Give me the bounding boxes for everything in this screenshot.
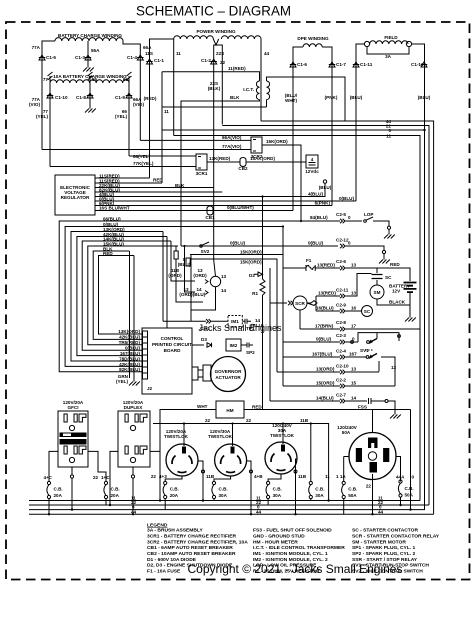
svg-text:C2-11: C2-11	[336, 288, 349, 293]
svg-text:SCR: SCR	[295, 301, 305, 306]
svg-text:CB1 - 6AMP AUTO RESET BREAKE: CB1 - 6AMP AUTO RESET BREAKER	[147, 545, 233, 551]
svg-text:CB1: CB1	[205, 215, 215, 220]
svg-text:11B: 11B	[206, 474, 215, 479]
svg-text:3CR1: 3CR1	[196, 171, 208, 176]
svg-text:SV1 - START-RUN-STOP SWITCH: SV1 - START-RUN-STOP SWITCH	[352, 563, 429, 569]
svg-text:C2-2: C2-2	[336, 378, 346, 383]
svg-text:4+C: 4+C	[43, 475, 52, 480]
svg-text:50A: 50A	[405, 493, 414, 498]
svg-text:55: 55	[92, 77, 98, 82]
svg-text:C1-9: C1-9	[115, 95, 125, 100]
svg-text:44: 44	[378, 509, 384, 514]
svg-text:0: 0	[388, 128, 391, 133]
svg-text:22: 22	[220, 60, 226, 65]
svg-text:0(BLU): 0(BLU)	[316, 337, 332, 342]
svg-text:0: 0	[348, 215, 351, 220]
svg-text:C2-7: C2-7	[336, 393, 346, 398]
svg-text:SP2 - SPARK PLUG, CYL. 2: SP2 - SPARK PLUG, CYL. 2	[352, 551, 416, 557]
svg-text:(BLU): (BLU)	[319, 185, 332, 190]
svg-text:66: 66	[123, 77, 129, 82]
svg-text:0(BLU): 0(BLU)	[339, 196, 355, 201]
svg-text:(YEL): (YEL)	[36, 114, 48, 119]
svg-text:DUPLEX: DUPLEX	[124, 405, 144, 410]
svg-text:(VIO): (VIO)	[29, 102, 40, 107]
svg-text:HM: HM	[226, 408, 233, 413]
svg-text:C2-10: C2-10	[336, 364, 349, 369]
svg-text:RED: RED	[390, 262, 400, 267]
svg-text:4+3: 4+3	[159, 474, 167, 479]
svg-text:0(BLU/WHT): 0(BLU/WHT)	[227, 205, 254, 210]
svg-text:SP2: SP2	[246, 350, 255, 355]
svg-text:BLK: BLK	[175, 183, 185, 188]
svg-text:CB2 - 10AMP AUTO RESET BREAK: CB2 - 10AMP AUTO RESET BREAKER	[147, 551, 236, 557]
svg-text:LEGEND: LEGEND	[147, 523, 168, 529]
svg-text:BOARD: BOARD	[164, 348, 182, 353]
svg-text:16S BLU/WHT: 16S BLU/WHT	[99, 206, 130, 211]
svg-text:CB2: CB2	[238, 166, 248, 171]
svg-text:11: 11	[386, 134, 391, 139]
svg-text:17: 17	[351, 324, 357, 329]
svg-text:DPE WINDING: DPE WINDING	[297, 36, 329, 41]
svg-text:167(BLU): 167(BLU)	[120, 351, 141, 356]
svg-text:C.B.: C.B.	[405, 486, 414, 491]
svg-text:C1-3: C1-3	[75, 55, 85, 60]
svg-text:66(YEL): 66(YEL)	[133, 154, 151, 159]
svg-text:C.B.: C.B.	[111, 487, 120, 492]
svg-text:66A: 66A	[143, 45, 152, 50]
svg-text:PRINTED CIRCUIT: PRINTED CIRCUIT	[152, 342, 192, 347]
svg-text:(BLU): (BLU)	[350, 95, 363, 100]
svg-text:SC: SC	[364, 309, 371, 314]
svg-text:(YEL): (YEL)	[115, 114, 127, 119]
svg-text:66(BLU): 66(BLU)	[103, 217, 121, 222]
svg-text:11B: 11B	[298, 474, 307, 479]
svg-text:LOP - LOW OIL PRESSURE: LOP - LOW OIL PRESSURE	[253, 563, 317, 569]
svg-text:IM1 - IGNITION MODULE, CYL.: IM1 - IGNITION MODULE, CYL. 1	[253, 551, 328, 557]
svg-text:RED: RED	[252, 405, 262, 410]
svg-text:C1-2: C1-2	[201, 58, 211, 63]
svg-text:C.B.: C.B.	[273, 487, 282, 492]
svg-text:84(BLU): 84(BLU)	[310, 215, 328, 220]
svg-text:REGULATOR: REGULATOR	[61, 195, 90, 200]
svg-text:D3: D3	[201, 337, 207, 342]
svg-text:SCR - STARTER CONTACTOR RELA: SCR - STARTER CONTACTOR RELAY	[352, 534, 440, 540]
svg-text:R1: R1	[252, 291, 258, 296]
svg-text:C2-3: C2-3	[336, 333, 346, 338]
svg-text:4(BLU): 4(BLU)	[308, 192, 324, 197]
svg-text:I.C.T.: I.C.T.	[243, 87, 254, 92]
svg-text:22S: 22S	[216, 51, 224, 56]
svg-text:F1 - 10A FUSE: F1 - 10A FUSE	[147, 569, 181, 575]
svg-text:1 1A: 1 1A	[336, 474, 346, 479]
svg-text:15K(ORD): 15K(ORD)	[266, 139, 288, 144]
svg-text:12Vdc: 12Vdc	[305, 169, 319, 174]
svg-text:SSR - START / STOP RELAY: SSR - START / STOP RELAY	[352, 557, 418, 563]
svg-text:3CR2 - BATTERY CHARGE RECTIF: 3CR2 - BATTERY CHARGE RECTIFIER, 10A	[147, 539, 248, 545]
svg-text:3CR1 - BATTERY CHARGE RECTIF: 3CR1 - BATTERY CHARGE RECTIFIER	[147, 534, 237, 540]
svg-text:3A - BRUSH ASSEMBLY: 3A - BRUSH ASSEMBLY	[147, 528, 203, 534]
svg-text:20A: 20A	[170, 493, 179, 498]
svg-text:C1-11: C1-11	[360, 62, 373, 67]
svg-text:C1-10: C1-10	[55, 95, 68, 100]
svg-text:SV2: SV2	[201, 249, 210, 254]
svg-text:SM - STARTER MOTOR: SM - STARTER MOTOR	[352, 539, 406, 545]
svg-text:C1-6: C1-6	[297, 62, 307, 67]
svg-text:11: 11	[164, 109, 169, 114]
svg-text:RED: RED	[103, 251, 113, 256]
svg-text:15K(ORD): 15K(ORD)	[240, 250, 262, 255]
svg-text:POWER WINDING: POWER WINDING	[196, 29, 235, 34]
svg-text:4+B: 4+B	[254, 474, 263, 479]
svg-text:13: 13	[351, 263, 357, 268]
svg-text:0(BLU): 0(BLU)	[230, 241, 246, 246]
svg-text:SC - STARTER CONTACTOR: SC - STARTER CONTACTOR	[352, 528, 418, 534]
svg-text:30A: 30A	[219, 493, 228, 498]
svg-text:C1-12: C1-12	[411, 62, 424, 67]
svg-text:77A: 77A	[32, 45, 41, 50]
svg-text:C2-5: C2-5	[336, 212, 346, 217]
svg-text:TWISTLOK: TWISTLOK	[164, 434, 189, 439]
svg-text:167: 167	[349, 352, 357, 357]
svg-text:14: 14	[351, 396, 357, 401]
svg-text:D2, D3 - ENGINE SHUTDOWN DIO: D2, D3 - ENGINE SHUTDOWN DIODE	[147, 563, 233, 569]
svg-text:14(BLU): 14(BLU)	[316, 396, 334, 401]
svg-text:SV2 - IDLE CONTROL SWITCH: SV2 - IDLE CONTROL SWITCH	[352, 569, 423, 575]
svg-text:FSS: FSS	[358, 405, 367, 410]
svg-text:C1-5: C1-5	[46, 55, 56, 60]
svg-text:C.B.: C.B.	[315, 487, 324, 492]
svg-text:FIELD: FIELD	[384, 35, 398, 40]
svg-text:(BLU): (BLU)	[418, 95, 431, 100]
svg-text:50A: 50A	[342, 430, 351, 435]
svg-text:SM: SM	[374, 290, 381, 295]
svg-text:11(RED): 11(RED)	[228, 66, 246, 71]
svg-text:SV1: SV1	[360, 348, 369, 353]
svg-text:IM2 - IGNITION MODULE, CYL.: IM2 - IGNITION MODULE, CYL. 2	[253, 557, 328, 563]
svg-text:GFCI: GFCI	[68, 405, 79, 410]
svg-text:17(BRN): 17(BRN)	[315, 324, 334, 329]
svg-text:13(RED): 13(RED)	[317, 263, 335, 268]
svg-text:(VIO): (VIO)	[133, 102, 144, 107]
svg-text:16(BLU): 16(BLU)	[316, 306, 334, 311]
svg-text:LOP: LOP	[364, 212, 373, 217]
svg-text:TWISTLOK: TWISTLOK	[208, 434, 233, 439]
svg-text:(RED): (RED)	[144, 96, 157, 101]
svg-text:55A: 55A	[91, 48, 100, 53]
svg-text:GND - GROUND STUD: GND - GROUND STUD	[253, 534, 305, 540]
svg-text:BLK: BLK	[230, 95, 240, 100]
svg-text:13(ORD): 13(ORD)	[316, 367, 335, 372]
svg-text:13: 13	[351, 291, 357, 296]
svg-text:ACTUATOR: ACTUATOR	[215, 375, 241, 380]
svg-text:16: 16	[351, 306, 357, 311]
svg-text:13: 13	[221, 274, 227, 279]
svg-text:BLACK: BLACK	[389, 300, 406, 305]
svg-text:RED: RED	[153, 178, 163, 183]
svg-text:22: 22	[205, 418, 211, 423]
svg-text:0: 0	[412, 475, 415, 480]
svg-text:SC: SC	[385, 275, 392, 280]
svg-text:0(BLU): 0(BLU)	[125, 346, 141, 351]
svg-text:13K(RED): 13K(RED)	[209, 156, 231, 161]
svg-text:14: 14	[221, 288, 227, 293]
svg-text:C1-8: C1-8	[76, 95, 86, 100]
svg-text:15AK(ORD): 15AK(ORD)	[250, 156, 275, 161]
svg-text:SCHEMATIC – DIAGRAM: SCHEMATIC – DIAGRAM	[136, 3, 291, 19]
svg-text:6(PNK): 6(PNK)	[315, 201, 331, 206]
svg-text:(BLK): (BLK)	[208, 86, 221, 91]
svg-text:22: 22	[246, 418, 252, 423]
svg-text:(PNK): (PNK)	[325, 95, 338, 100]
svg-text:50A: 50A	[348, 493, 357, 498]
svg-text:1+C: 1+C	[101, 475, 110, 480]
svg-text:0: 0	[348, 241, 351, 246]
svg-text:11B: 11B	[300, 418, 309, 423]
svg-text:C1-1: C1-1	[154, 58, 164, 63]
svg-text:WHT): WHT)	[285, 98, 297, 103]
svg-text:C2-8: C2-8	[336, 320, 346, 325]
svg-text:SP1 - SPARK PLUG, CYL. 1: SP1 - SPARK PLUG, CYL. 1	[352, 545, 416, 551]
svg-text:44A: 44A	[396, 475, 405, 480]
svg-text:I.C.T. - IDLE CONTROL TRANSF: I.C.T. - IDLE CONTROL TRANSFORMER	[253, 545, 345, 551]
svg-text:44: 44	[264, 51, 270, 56]
svg-text:15K(ORD): 15K(ORD)	[240, 260, 262, 265]
svg-text:C.B.: C.B.	[219, 487, 228, 492]
svg-text:WHT: WHT	[197, 404, 208, 409]
svg-text:HM - HOUR METER: HM - HOUR METER	[253, 539, 298, 545]
svg-text:C.B.: C.B.	[348, 487, 357, 492]
svg-text:77K(YEL): 77K(YEL)	[133, 161, 154, 166]
svg-text:(BLU): (BLU)	[178, 262, 191, 267]
svg-text:GOVERNOR: GOVERNOR	[215, 369, 242, 374]
svg-text:(ORD): (ORD)	[193, 273, 207, 278]
svg-text:77A(VIO): 77A(VIO)	[222, 144, 242, 149]
svg-text:TWISTLOK: TWISTLOK	[270, 433, 295, 438]
svg-text:D1 - 600V 10A DIODE: D1 - 600V 10A DIODE	[147, 557, 197, 563]
svg-text:F1: F1	[306, 258, 312, 263]
svg-text:Jacks Small Engines: Jacks Small Engines	[198, 323, 282, 333]
svg-text:167(BLU): 167(BLU)	[312, 352, 333, 357]
svg-text:20A: 20A	[54, 493, 63, 498]
svg-text:CONTROL: CONTROL	[161, 336, 184, 341]
svg-text:IM2: IM2	[230, 343, 238, 348]
svg-text:3A: 3A	[385, 54, 392, 59]
svg-text:(YEL): (YEL)	[116, 379, 128, 384]
svg-text:22: 22	[93, 475, 99, 480]
svg-text:FS3 - FUEL SHUT OFF SOLENOID: FS3 - FUEL SHUT OFF SOLENOID	[253, 528, 332, 534]
svg-text:C.B.: C.B.	[54, 487, 63, 492]
svg-text:R1 - 25 OHM, 25V RESISTOR: R1 - 25 OHM, 25V RESISTOR	[253, 569, 320, 575]
svg-text:30A: 30A	[273, 493, 282, 498]
svg-text:44: 44	[256, 509, 262, 514]
svg-text:11: 11	[176, 51, 181, 56]
svg-text:13(RED): 13(RED)	[318, 291, 336, 296]
svg-text:C2-12: C2-12	[336, 238, 349, 243]
svg-text:C1-4: C1-4	[127, 55, 137, 60]
svg-text:15(ORD): 15(ORD)	[316, 381, 335, 386]
svg-text:13: 13	[351, 367, 357, 372]
svg-text:(BLU): (BLU)	[193, 292, 206, 297]
svg-text:4: 4	[311, 157, 314, 162]
svg-text:77: 77	[43, 77, 49, 82]
svg-text:(ORD): (ORD)	[168, 273, 182, 278]
svg-text:C2-4: C2-4	[336, 349, 346, 354]
svg-text:11S: 11S	[145, 51, 153, 56]
svg-text:C1-7: C1-7	[336, 62, 346, 67]
svg-text:C2-9: C2-9	[336, 303, 346, 308]
svg-text:C2-6: C2-6	[336, 259, 346, 264]
svg-text:22: 22	[151, 474, 157, 479]
svg-text:J2: J2	[147, 386, 153, 391]
svg-text:15: 15	[351, 381, 357, 386]
svg-text:C.B.: C.B.	[170, 487, 179, 492]
svg-text:11: 11	[325, 474, 330, 479]
svg-text:0(BLU): 0(BLU)	[308, 241, 324, 246]
svg-text:30A: 30A	[315, 493, 324, 498]
svg-text:20A: 20A	[111, 493, 120, 498]
svg-text:13: 13	[391, 365, 397, 370]
svg-text:12V: 12V	[392, 289, 401, 294]
svg-text:22: 22	[366, 484, 372, 489]
